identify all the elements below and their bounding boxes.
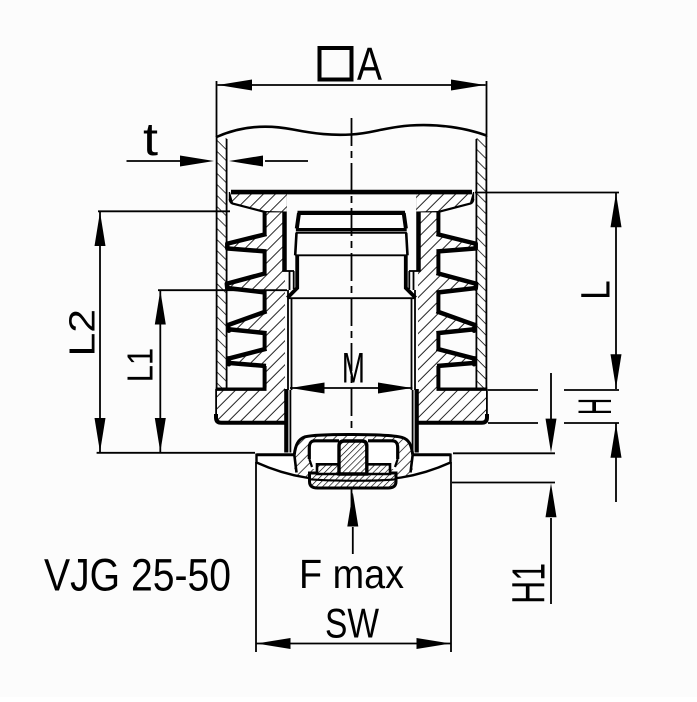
svg-text:VJG 25-50: VJG 25-50 — [44, 549, 231, 600]
svg-text:L: L — [573, 280, 619, 300]
svg-text:L2: L2 — [61, 309, 102, 357]
svg-text:SW: SW — [325, 600, 379, 647]
svg-text:t: t — [143, 113, 158, 165]
svg-text:L1: L1 — [120, 348, 161, 382]
svg-text:H1: H1 — [503, 563, 555, 604]
svg-text:M: M — [342, 344, 365, 392]
svg-text:A: A — [357, 38, 382, 90]
svg-text:H: H — [568, 398, 621, 415]
svg-text:F max: F max — [299, 551, 404, 597]
